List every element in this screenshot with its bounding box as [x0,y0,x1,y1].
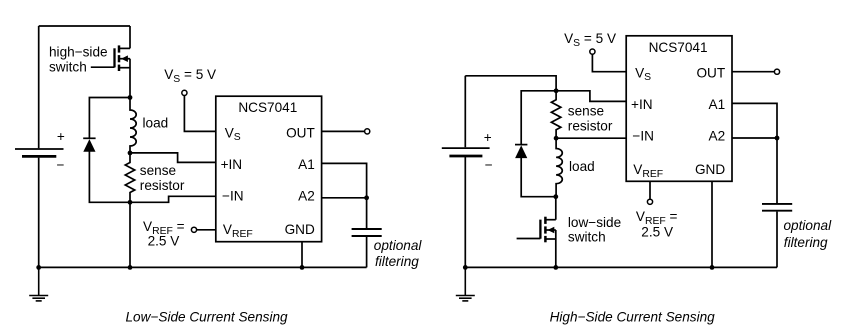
svg-text:filtering: filtering [784,235,828,250]
terminal VREF [647,199,652,204]
svg-text:low−side: low−side [568,215,621,230]
wire: A1 pin to filter node [732,103,777,203]
terminal OUT [365,129,370,134]
wire: node C to ground rail [129,202,131,267]
wire: top rail battery+ to sense node [465,76,556,91]
junction node C [128,200,133,205]
wire: node C to -IN pin [130,196,216,202]
junction A1/A2 filter node [364,195,369,200]
transistor Q1 high-side switch [115,26,131,98]
inductor L2 load [556,138,562,197]
junction node B [128,151,133,156]
ground symbol [456,267,475,301]
terminal VREF [191,227,196,232]
wire: VREF terminal to VREF pin [197,229,216,231]
wire: OUT pin to output terminal [732,71,774,73]
wire: VS terminal to VS pin [184,96,215,132]
wire: VS terminal to VS pin [592,54,626,71]
svg-text:OUT: OUT [286,125,315,140]
svg-text:load: load [143,116,169,131]
wire: GND pin to ground rail [711,181,713,267]
junction rail-switch [553,265,558,270]
junction rail-sense [128,265,133,270]
junction A1/A2 filter node [775,136,780,141]
wire: top rail battery+ to switch drain [39,25,130,27]
wire: VREF pin to VREF terminal [649,181,651,199]
wire: node D to diode cathode [521,91,556,145]
wire: ground rail [39,266,367,268]
svg-text:−: − [485,158,493,173]
svg-text:−IN: −IN [632,129,654,144]
svg-text:resistor: resistor [140,178,185,193]
junction node E load bottom [553,194,558,199]
junction rail-battery [36,265,41,270]
svg-text:optional: optional [784,218,833,233]
svg-text:filtering: filtering [375,254,419,269]
wire: diode anode to node C [89,152,130,203]
svg-text:A1: A1 [709,97,726,112]
svg-text:A1: A1 [298,157,315,172]
IC U2 NCS7041 [626,36,732,182]
svg-text:GND: GND [285,222,315,237]
svg-text:2.5 V: 2.5 V [641,224,673,239]
svg-text:A2: A2 [298,189,315,204]
wire: gate lead stub [517,238,541,240]
svg-text:resistor: resistor [568,119,613,134]
svg-text:optional: optional [374,238,423,253]
svg-text:VS: VS [635,65,651,83]
svg-text:high−side: high−side [49,45,108,60]
junction node F sense bottom [554,136,559,141]
wire: capacitor to ground rail [366,237,368,268]
terminal VS supply [590,49,595,54]
transistor Q2 low-side switch [540,197,555,268]
wire: node F to -IN pin [556,137,626,139]
svg-text:VS = 5 V: VS = 5 V [564,31,616,49]
terminal VS supply [182,90,187,95]
svg-text:−IN: −IN [222,189,244,204]
svg-text:−: − [57,158,65,173]
wire: A1 pin to filter node [322,163,367,228]
diode D1 [83,138,95,152]
wire: node A to freewheel diode cathode [89,98,130,139]
battery B2 [442,148,490,156]
svg-text:VREF: VREF [633,162,663,180]
svg-text:A2: A2 [709,129,726,144]
IC U1 NCS7041 [216,96,322,242]
junction node D sense top [554,88,559,93]
svg-text:+: + [57,129,65,144]
svg-text:NCS7041: NCS7041 [238,100,297,115]
wire: capacitor to ground rail [776,212,778,268]
junction node A [128,95,133,100]
svg-text:2.5 V: 2.5 V [148,234,180,249]
wire: A2 pin to filter node [732,137,777,139]
junction rail-GND [710,265,715,270]
battery B1 [15,149,64,156]
wire: A2 pin to filter node [322,197,367,199]
svg-text:NCS7041: NCS7041 [649,40,708,55]
wire: diode anode to node E [521,158,556,197]
junction rail-GND [300,265,305,270]
wire: battery negative lead [464,157,466,267]
wire: ground rail [465,266,777,268]
capacitor C1 optional filtering [352,229,382,236]
svg-text:load: load [569,159,595,174]
svg-text:VS = 5 V: VS = 5 V [164,67,216,85]
svg-text:switch: switch [568,230,606,245]
wire: node D to +IN pin [556,91,626,102]
svg-text:+IN: +IN [221,157,243,172]
wire: gate lead stub [91,66,115,68]
inductor L1 load [130,98,136,153]
diode D2 [515,145,527,159]
svg-text:switch: switch [49,59,87,74]
svg-text:OUT: OUT [696,65,725,80]
wire: battery negative lead [38,158,40,268]
resistor R1 sense resistor [125,153,134,202]
svg-text:Low−Side Current Sensing: Low−Side Current Sensing [126,310,289,325]
svg-text:sense: sense [568,104,604,119]
svg-text:GND: GND [695,162,725,177]
junction rail-battery [463,265,468,270]
capacitor C2 optional filtering [762,204,792,211]
wire: OUT pin to output terminal [322,130,365,132]
ground symbol [29,267,48,301]
svg-text:+IN: +IN [631,97,653,112]
wire: node B to +IN pin [130,153,216,163]
svg-text:High−Side Current Sensing: High−Side Current Sensing [550,310,716,325]
wire: GND pin to ground rail [301,242,303,268]
svg-text:VS: VS [225,125,241,143]
terminal OUT [774,69,779,74]
svg-text:+: + [484,130,492,145]
wire: battery positive lead [464,76,466,148]
svg-text:VREF: VREF [223,222,253,240]
resistor R2 sense resistor [551,91,560,138]
wire: battery positive lead [38,26,40,148]
svg-text:sense: sense [140,163,176,178]
